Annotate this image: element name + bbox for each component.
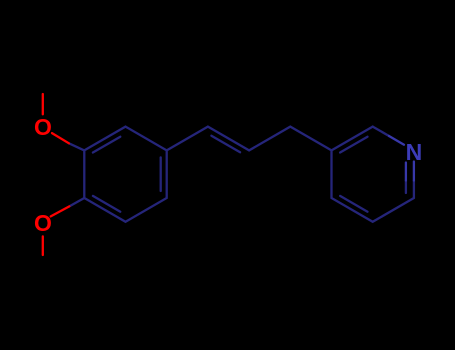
svg-text:O: O xyxy=(34,114,52,140)
svg-text:O: O xyxy=(34,210,52,236)
svg-text:N: N xyxy=(406,139,423,165)
